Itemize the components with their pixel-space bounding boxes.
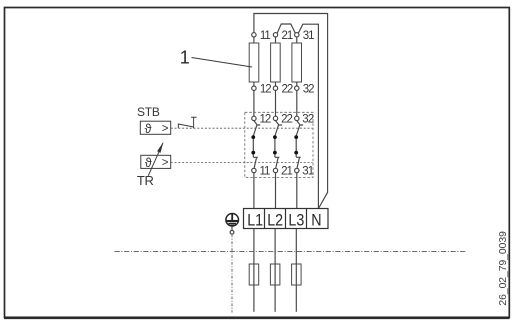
wire	[254, 37, 297, 43]
installation boundary (dash-dot chain line)	[115, 251, 467, 253]
svg-text:11: 11	[260, 30, 271, 42]
wire: supply L1	[253, 229, 255, 312]
heating element pole 2	[271, 43, 281, 82]
svg-text:1: 1	[180, 48, 190, 68]
svg-text:TR: TR	[137, 173, 154, 188]
svg-text:ϑ: ϑ	[145, 156, 152, 170]
svg-text:21: 21	[281, 166, 292, 178]
svg-text:22: 22	[282, 83, 293, 95]
svg-text:ϑ: ϑ	[145, 122, 152, 136]
node contact terminal 12	[252, 116, 256, 120]
svg-text:L2: L2	[267, 211, 283, 229]
earth conductor (dash-dot)	[231, 234, 233, 312]
svg-text:L1: L1	[247, 211, 263, 229]
node contact terminal 22	[273, 116, 277, 120]
node pin 32	[295, 86, 299, 90]
heating element pole 3	[292, 43, 302, 82]
wire: earth stub	[231, 226, 233, 231]
temperature controller TR	[141, 142, 171, 176]
node contact terminal 11	[252, 168, 256, 172]
NC contact pole 3	[294, 121, 303, 169]
svg-text:21: 21	[282, 30, 293, 42]
svg-text:>: >	[162, 157, 169, 169]
svg-text:>: >	[162, 123, 169, 135]
svg-text:11: 11	[260, 166, 271, 178]
mechanical link TR (dashed)	[171, 162, 313, 164]
safety temperature limiter STB	[140, 121, 170, 136]
node pin 31	[295, 33, 299, 37]
node contact terminal 31	[295, 168, 299, 172]
contact unit boundary (dashed)	[245, 112, 313, 177]
svg-text:31: 31	[303, 30, 314, 42]
wire: jumper pin 21 to pin 31	[277, 24, 295, 33]
fuse F1	[249, 264, 259, 285]
wire: top bus from pin 11 to right-side drop	[254, 14, 328, 209]
node pin 22	[273, 86, 277, 90]
protective earth symbol	[226, 214, 239, 227]
heating element pole 1	[249, 43, 259, 82]
wire	[254, 82, 297, 86]
svg-text:12: 12	[260, 113, 271, 125]
wire: contacts to terminal block	[254, 173, 297, 209]
wire: supply L3	[295, 229, 297, 312]
svg-text:22: 22	[281, 113, 292, 125]
node earth terminal	[230, 230, 234, 234]
node contact terminal 32	[295, 116, 299, 120]
wire	[254, 90, 297, 116]
svg-text:26_02_79_0039: 26_02_79_0039	[498, 231, 509, 306]
node pin 21	[273, 33, 277, 37]
svg-text:32: 32	[302, 113, 313, 125]
node pin 11	[252, 33, 256, 37]
svg-text:32: 32	[303, 83, 314, 95]
node contact terminal 21	[273, 168, 277, 172]
NC contact pole 2	[273, 121, 282, 169]
NC contact pole 1	[251, 121, 260, 169]
fuse F2	[270, 264, 280, 285]
svg-text:N: N	[311, 211, 321, 229]
fuse F3	[292, 264, 302, 285]
svg-text:31: 31	[302, 166, 313, 178]
mechanical link STB (dashed)	[171, 127, 313, 129]
wire: supply L2	[274, 229, 276, 312]
manual reset symbol	[178, 117, 196, 128]
terminal block L1 L2 L3 N	[244, 209, 329, 230]
leader line for label 1	[192, 58, 253, 68]
svg-text:STB: STB	[137, 105, 160, 119]
node pin 12	[252, 86, 256, 90]
svg-text:12: 12	[260, 83, 271, 95]
wire: jumper pin 31 to N drop	[298, 24, 318, 208]
svg-text:L3: L3	[288, 211, 304, 229]
